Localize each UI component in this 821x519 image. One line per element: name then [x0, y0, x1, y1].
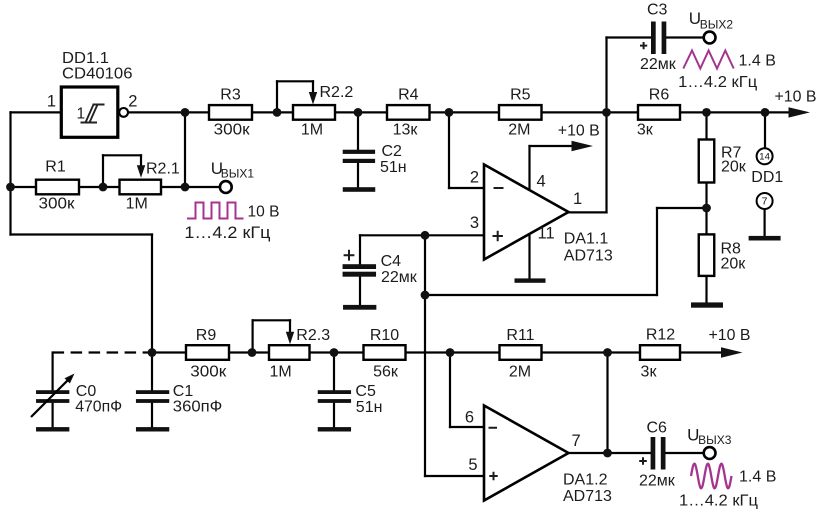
svg-text:300к: 300к	[39, 196, 76, 213]
svg-text:10 В: 10 В	[248, 204, 280, 221]
svg-text:ВЫХ2: ВЫХ2	[700, 17, 734, 31]
svg-text:R3: R3	[220, 87, 241, 104]
svg-text:13к: 13к	[393, 121, 419, 138]
svg-text:C3: C3	[647, 2, 668, 19]
svg-text:1.4 В: 1.4 В	[739, 469, 776, 486]
svg-text:R1: R1	[45, 159, 66, 176]
svg-text:7: 7	[762, 195, 768, 207]
svg-text:DD1: DD1	[751, 169, 783, 186]
svg-text:22мк: 22мк	[639, 473, 676, 490]
svg-text:1…4.2 кГц: 1…4.2 кГц	[679, 493, 758, 510]
svg-text:7: 7	[572, 432, 581, 450]
svg-text:1М: 1М	[270, 363, 292, 380]
svg-text:20к: 20к	[721, 158, 747, 175]
svg-text:1…4.2 кГц: 1…4.2 кГц	[678, 74, 757, 91]
svg-text:2М: 2М	[508, 121, 530, 138]
svg-text:1: 1	[47, 93, 56, 111]
svg-text:R5: R5	[510, 87, 531, 104]
svg-text:1М: 1М	[301, 121, 323, 138]
svg-text:56к: 56к	[373, 363, 399, 380]
svg-text:22мк: 22мк	[381, 269, 418, 286]
svg-text:3к: 3к	[637, 121, 654, 138]
svg-text:20к: 20к	[721, 256, 747, 273]
svg-text:R10: R10	[370, 327, 399, 344]
svg-text:AD713: AD713	[563, 488, 612, 505]
svg-text:C4: C4	[381, 253, 402, 270]
svg-text:C6: C6	[647, 420, 668, 437]
svg-text:2: 2	[128, 93, 137, 111]
svg-text:2М: 2М	[509, 364, 531, 381]
svg-text:470пФ: 470пФ	[75, 399, 122, 416]
svg-text:22мк: 22мк	[640, 56, 677, 73]
svg-text:6: 6	[465, 408, 474, 426]
svg-text:R6: R6	[649, 87, 670, 104]
svg-text:DA1.1: DA1.1	[564, 231, 609, 248]
svg-text:1: 1	[77, 106, 86, 123]
svg-text:ВЫХ1: ВЫХ1	[221, 167, 255, 181]
svg-text:AD713: AD713	[564, 247, 613, 264]
svg-text:4: 4	[537, 173, 546, 191]
svg-text:5: 5	[468, 456, 477, 474]
svg-text:+10 В: +10 В	[709, 327, 751, 344]
svg-text:R11: R11	[506, 327, 534, 344]
svg-text:3: 3	[470, 214, 479, 232]
svg-text:1М: 1М	[126, 196, 148, 213]
svg-text:360пФ: 360пФ	[173, 399, 223, 416]
svg-text:300к: 300к	[190, 363, 227, 380]
svg-text:300к: 300к	[214, 121, 251, 138]
svg-text:R2.3: R2.3	[296, 327, 330, 344]
svg-text:DD1.1: DD1.1	[62, 50, 109, 67]
svg-text:CD40106: CD40106	[62, 66, 133, 83]
svg-text:3к: 3к	[641, 364, 658, 381]
svg-text:R2.1: R2.1	[146, 161, 180, 178]
svg-text:ВЫХ3: ВЫХ3	[698, 433, 732, 447]
svg-text:1.4 В: 1.4 В	[739, 53, 776, 70]
svg-text:1: 1	[573, 190, 582, 208]
svg-text:51н: 51н	[356, 399, 383, 416]
svg-text:DA1.2: DA1.2	[563, 471, 608, 488]
svg-text:+10 В: +10 В	[558, 123, 600, 140]
svg-text:C5: C5	[355, 383, 376, 400]
svg-text:C2: C2	[382, 143, 403, 160]
svg-text:R9: R9	[196, 327, 217, 344]
svg-text:1…4.2 кГц: 1…4.2 кГц	[184, 224, 271, 242]
svg-text:R2.2: R2.2	[320, 84, 354, 101]
svg-text:R12: R12	[646, 327, 675, 344]
svg-text:51н: 51н	[380, 159, 407, 176]
svg-text:R4: R4	[398, 87, 419, 104]
svg-text:+10 В: +10 В	[775, 89, 817, 106]
svg-text:14: 14	[759, 152, 770, 163]
svg-text:11: 11	[538, 225, 555, 243]
svg-text:2: 2	[470, 169, 479, 187]
